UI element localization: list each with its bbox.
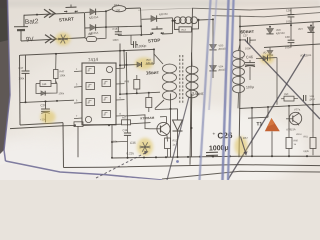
wire D2 to C18 row: [106, 25, 141, 28]
zener VD7: [307, 25, 314, 33]
label C46 100u: [246, 85, 254, 89]
svg-text:КД Б: КД Б: [303, 150, 309, 153]
yellow highlight mark C36: [137, 138, 153, 156]
paper bottom edge line: [6, 161, 163, 180]
svg-text:C18: C18: [112, 27, 118, 31]
svg-text:R47: R47: [59, 69, 65, 73]
capacitor C18: [115, 26, 122, 35]
label 34вит: [192, 91, 205, 97]
svg-text:VD7: VD7: [298, 28, 304, 31]
svg-text:Bat2: Bat2: [25, 18, 39, 26]
label R47 100k: [59, 73, 66, 77]
wire bottom row with junctions: [112, 155, 320, 159]
wire vertical x126: [126, 52, 128, 126]
label C39 100n: [286, 19, 293, 23]
svg-text:+: +: [212, 131, 215, 137]
svg-text:1000p: 1000p: [137, 44, 147, 49]
transformer T2 secondary winding: [186, 53, 198, 112]
resistor R59: [281, 93, 298, 101]
wire vertical x313: [312, 22, 314, 105]
schematic frame vertical x192: [190, 8, 193, 165]
capacitor C33: [122, 126, 131, 141]
svg-text:C33: C33: [122, 128, 128, 132]
connector chevrons top: [44, 9, 55, 17]
wire left bottom y128: [10, 124, 76, 128]
svg-text:R61: R61: [303, 135, 308, 138]
wire x289 mid: [288, 106, 290, 132]
label KT815A: [286, 127, 296, 131]
label VD10 right: [296, 134, 303, 136]
pushbutton START: [64, 5, 78, 13]
resistor R49: [125, 75, 140, 93]
wire row y101: [20, 100, 74, 103]
connector chevrons bottom: [45, 35, 56, 43]
svg-text:100µ: 100µ: [246, 85, 254, 89]
label C37 100n: [245, 46, 252, 50]
wire IC pin to base: [125, 115, 151, 129]
wire vertical x120: [119, 44, 121, 96]
label VD2: [146, 59, 154, 65]
label plus C26: [212, 131, 215, 137]
svg-text:100к: 100к: [59, 73, 66, 77]
transformer T2 core: [180, 55, 183, 103]
svg-text:VD10: VD10: [296, 134, 303, 136]
wire vertical x170: [170, 94, 172, 158]
battery Bat2 symbol: [14, 15, 28, 41]
inductor L1 coil: [173, 17, 200, 24]
schematic frame bottom line F1: [64, 165, 320, 168]
resistor R50: [146, 93, 152, 112]
diode VD2 KD522: [137, 62, 141, 67]
svg-text:КД143: КД143: [146, 62, 154, 65]
transformer T2 primary winding: [154, 49, 177, 108]
svg-text:КД105А: КД105А: [159, 13, 168, 17]
label C36: [126, 141, 136, 156]
label 10n: [113, 139, 118, 143]
wire top right horizontal y26: [240, 22, 320, 27]
svg-text:VD: VD: [263, 51, 267, 54]
wire vertical x240: [239, 16, 241, 158]
wire x313 mid: [312, 105, 314, 132]
svg-text:R51: R51: [122, 116, 127, 119]
yellow highlight mark C20: [41, 111, 56, 124]
yellow highlight mark R57: [235, 137, 248, 156]
schematic frame top outer line: [138, 7, 320, 10]
schematic frame bottom-left horizontal: [20, 123, 63, 125]
capacitor C37: [248, 37, 257, 43]
wire y108 short: [155, 109, 178, 110]
wire right y108: [239, 104, 320, 109]
label C18: [112, 27, 118, 31]
label T1: [256, 121, 262, 127]
small box on wire y126: [63, 122, 112, 127]
wire battery top: [24, 13, 85, 16]
svg-text:КТ805АМ: КТ805АМ: [140, 116, 154, 121]
label C19 1000p: [137, 44, 147, 49]
label C38: [285, 35, 291, 39]
label C17 100k: [18, 76, 25, 80]
label VT7a: [294, 107, 301, 111]
svg-text:R59: R59: [284, 93, 289, 96]
schematic frame left vertical x19: [19, 55, 22, 125]
wire vertical x291 top: [290, 9, 292, 27]
diode VD2pair: [85, 24, 106, 30]
wire STOP row: [118, 34, 172, 36]
wire battery bottom: [21, 38, 85, 41]
wire vertical x172: [172, 18, 174, 34]
svg-text:C38: C38: [285, 35, 291, 39]
svg-text:100n: 100n: [286, 19, 293, 23]
wire x141 to diode VD3: [142, 18, 152, 20]
orange triangle annotation: [265, 118, 280, 131]
svg-text:КД105А: КД105А: [89, 15, 99, 20]
label 16вит: [146, 70, 160, 76]
resistor R52: [165, 138, 171, 157]
capacitor C26 plates: [206, 129, 218, 158]
wire coil to x213: [199, 18, 214, 21]
svg-text:100n: 100n: [245, 46, 252, 50]
label C17: [18, 66, 24, 70]
label R12 100: [115, 8, 120, 12]
wire vertical x270 down: [269, 56, 271, 61]
wire right y117: [248, 107, 268, 118]
wire R47 vertical: [56, 66, 57, 83]
zener VD4: [209, 65, 226, 72]
transistor Q1 KT805AM: [151, 122, 171, 135]
wire vertical x141: [140, 8, 142, 36]
IC U1 7414 hex schmitt inverter: [74, 57, 125, 125]
label C46: [241, 55, 253, 60]
wire vertical branch x84: [84, 13, 87, 38]
junction battery top wire: [36, 14, 38, 16]
resistor R60: [286, 132, 299, 156]
wire vertical x191: [191, 111, 193, 157]
svg-text:10n: 10n: [113, 139, 118, 143]
diode VD1: [85, 9, 106, 15]
annotation pen line C steep: [167, 97, 189, 180]
label VD8 D814: [300, 54, 312, 58]
transistor VT7 circle: [286, 112, 302, 125]
svg-text:КД213А: КД213А: [276, 32, 285, 35]
label VD1 KD105A: [89, 15, 99, 20]
wire VD2 row: [120, 48, 155, 65]
resistor R13 parallel: [175, 20, 199, 32]
schematic frame top inner line: [212, 13, 320, 17]
svg-text:Д814: Д814: [309, 99, 315, 101]
wire vertical x112: [108, 124, 113, 159]
label C18 100n: [112, 38, 119, 42]
wire Q1 collector: [160, 117, 167, 123]
diode VD9 small: [256, 51, 274, 60]
svg-text:C36: C36: [130, 141, 136, 145]
svg-text:VD8 Д814: VD8 Д814: [300, 54, 312, 58]
resistor R12 oval: [106, 6, 141, 12]
label R57: [243, 136, 248, 140]
svg-text:STOP: STOP: [148, 38, 161, 44]
paper left edge line: [4, 0, 10, 161]
capacitor C47 labels: [304, 95, 316, 101]
svg-text:T1: T1: [256, 121, 262, 127]
label START: [59, 16, 74, 22]
wire y128 continue: [83, 124, 122, 125]
resistor R47: [54, 53, 59, 83]
label R52: [172, 138, 177, 146]
capacitor C39: [288, 13, 295, 26]
svg-text:C39: C39: [286, 8, 292, 12]
resistor R48 with diode parallel: [36, 81, 57, 96]
svg-text:1000µ: 1000µ: [209, 145, 229, 153]
wire vertical x106: [105, 10, 107, 28]
blue pen line 1: [200, 0, 211, 180]
schematic frame outer bottom line F2: [162, 171, 320, 179]
svg-text:C46: C46: [246, 55, 253, 59]
wire top long y50: [20, 49, 154, 55]
svg-text:КД105А: КД105А: [89, 31, 99, 36]
zener VD6: [266, 26, 273, 34]
blue pen line 3: [223, 0, 229, 180]
dark table edge left strip: [0, 0, 10, 154]
schematic frame inner vertical x63: [62, 123, 65, 168]
zener VD8: [267, 48, 273, 55]
pushbutton STOP: [150, 26, 164, 34]
annotation pen line B: [228, 54, 305, 180]
label KT805AM: [140, 116, 154, 121]
diode VD3: [151, 15, 173, 21]
annotation pen line A: [245, 40, 320, 119]
label Bat2: [25, 18, 39, 26]
label R51: [122, 116, 127, 119]
diode VD10 big: [173, 109, 183, 157]
svg-text:КТ815А: КТ815А: [286, 127, 296, 131]
label C26: [217, 131, 233, 141]
wire vertical x277: [274, 58, 277, 105]
wire vertical x213: [212, 18, 214, 78]
capacitor C46: [245, 60, 255, 80]
annotation arrow at R57: [241, 137, 248, 156]
blue pen line 4: [228, 0, 234, 180]
label VD3 KD105A: [159, 13, 168, 17]
capacitor C20: [40, 101, 50, 122]
table area below paper bottom edge: [0, 163, 160, 180]
zener VD5: [209, 44, 226, 51]
capacitor C17: [22, 55, 30, 102]
svg-text:100n: 100n: [112, 38, 119, 42]
svg-text:C37: C37: [243, 33, 249, 37]
svg-text:C17: C17: [18, 66, 24, 70]
capacitor C19: [131, 35, 138, 48]
svg-text:9V: 9V: [26, 36, 35, 44]
blue pen line 2: [209, 0, 217, 110]
wire row y93: [120, 92, 160, 95]
svg-text:100: 100: [115, 8, 120, 12]
yellow highlight mark 1: [56, 33, 71, 46]
transformer winding W3: [233, 44, 245, 108]
label 60вит: [240, 29, 255, 36]
svg-text:34вит.: 34вит.: [192, 91, 205, 97]
label R12: [114, 3, 120, 7]
label C39: [286, 8, 292, 12]
label R61: [303, 135, 309, 153]
svg-text:7414: 7414: [88, 57, 99, 63]
label 100k small: [58, 91, 65, 95]
label VD6: [276, 29, 285, 35]
resistor R51: [122, 120, 151, 125]
label R47: [59, 69, 65, 73]
blue ink dot: [176, 160, 179, 163]
label STOP: [148, 38, 161, 44]
yellow highlight mark VD near C46: [260, 53, 274, 64]
svg-text:R57: R57: [243, 136, 248, 140]
wire right y46: [264, 44, 320, 48]
svg-text:100к: 100к: [18, 76, 25, 80]
label VD7: [298, 28, 304, 31]
wire vertical x252: [251, 108, 253, 156]
resistor R61: [310, 132, 316, 155]
svg-text:VD9: VD9: [309, 96, 314, 98]
svg-text:R52: R52: [172, 138, 177, 142]
svg-text:VT7а: VT7а: [294, 107, 301, 111]
label VD2pair KD105A: [89, 31, 99, 36]
svg-text:R12: R12: [114, 3, 120, 7]
label 1000u: [209, 145, 229, 153]
dashed annotation pointer: [96, 151, 149, 178]
yellow highlight mark VD2: [135, 58, 153, 70]
wire C37 branch: [240, 39, 246, 41]
label C38 100n: [285, 45, 292, 49]
label R49: [124, 79, 130, 83]
wire Q1 emitter: [166, 136, 169, 142]
schematic frame inner vertical x78: [77, 126, 79, 157]
wire IC pin2 vertical: [123, 51, 126, 68]
wire C33 bottom: [112, 141, 128, 158]
label 9V: [26, 36, 35, 44]
wire vertical x272 triangle: [271, 108, 273, 156]
capacitor C38: [288, 26, 295, 48]
svg-text:16вит: 16вит: [146, 70, 160, 76]
svg-text:START: START: [59, 16, 74, 22]
resistor R42: [85, 27, 106, 41]
label C37: [243, 33, 249, 37]
